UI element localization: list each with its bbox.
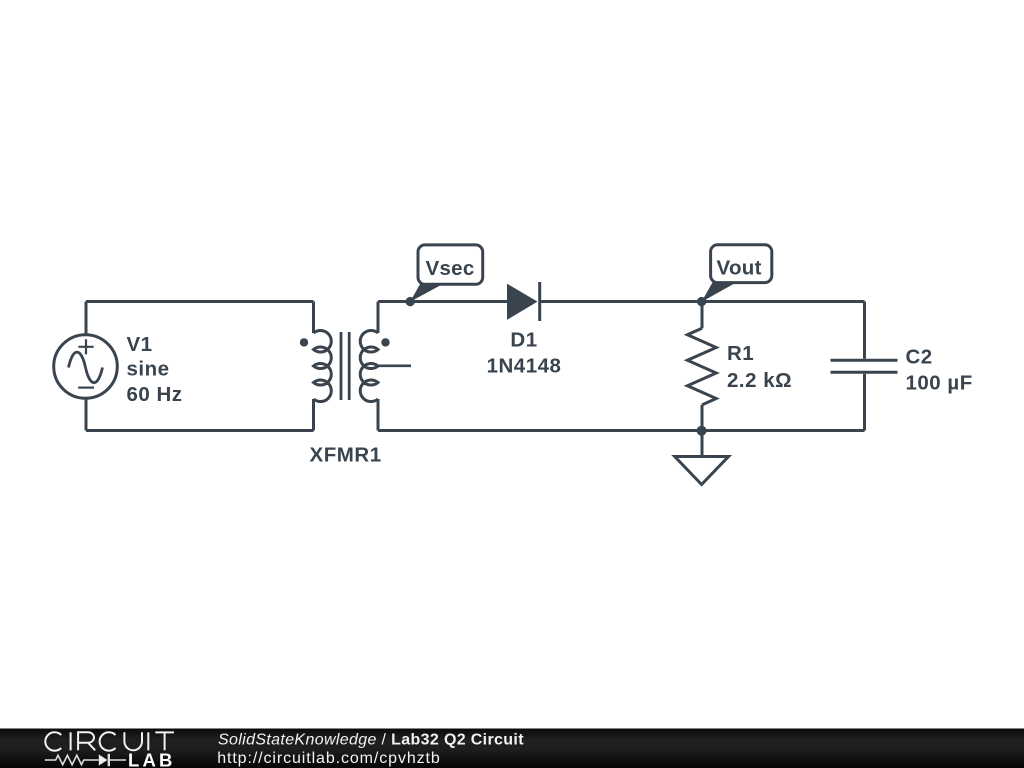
svg-text:C2: C2 [906,346,933,369]
wire: V1 bottom lead [85,399,88,431]
svg-text:100 µF: 100 µF [906,372,973,395]
capacitor C2 [831,360,898,372]
wire: top-left rail [86,300,314,303]
node flag Vsec [410,245,483,302]
wire: secondary top stub [377,302,380,334]
voltage source V1 [54,335,118,399]
primary phase dot [300,338,308,346]
wire: C2 top lead [863,302,866,359]
secondary phase dot [381,338,389,346]
svg-text:2.2 kΩ: 2.2 kΩ [727,369,792,392]
svg-text:LAB: LAB [128,749,176,768]
svg-text:SolidStateKnowledge / Lab32 Q2: SolidStateKnowledge / Lab32 Q2 Circuit [218,731,524,748]
wire: R1 bottom lead [701,405,704,431]
node flag Vout [702,245,772,302]
wire: diode to Vout junction [540,300,702,303]
transformer XFMR1 [314,330,379,401]
wire: V1 top lead [85,302,88,336]
plus sign of V1 [78,339,93,354]
label V1 sine 60 Hz [127,333,183,406]
svg-text:R1: R1 [727,342,754,365]
svg-text:http://circuitlab.com/cpvhztb: http://circuitlab.com/cpvhztb [217,750,441,767]
wire: bottom-left rail [86,429,314,432]
junction dot Vsec node [406,297,415,306]
svg-text:XFMR1: XFMR1 [310,444,382,467]
wire: transformer center tap [378,364,411,367]
junction dot ground node [697,426,707,436]
schematic ink color [86,302,865,457]
wire: ground stub [701,431,704,457]
svg-text:1N4148: 1N4148 [487,354,562,377]
wire: R1 top lead [701,302,704,329]
svg-text:V1: V1 [127,333,153,356]
diode D1 [507,282,540,321]
wire: top rail secondary to diode [378,300,507,303]
label D1 1N4148 [487,329,562,378]
svg-text:D1: D1 [510,329,537,352]
core lines [341,332,349,400]
svg-text:Vout: Vout [717,257,762,280]
cathode bar [538,282,541,321]
wire: primary bottom stub [312,399,315,431]
ground [675,457,729,485]
label C2 100 uF [906,346,973,395]
junction dot Vout node [697,297,706,306]
wire: secondary bottom stub [377,399,380,431]
sine wave inside V1 [69,352,103,383]
label R1 2.2 kOhm [727,342,792,392]
minus sign of V1 [78,387,94,389]
CircuitLab logo wordmark CIRCUIT [45,732,174,750]
secondary winding [360,330,378,401]
wire: bottom-right rail [378,429,865,432]
wire: primary top stub [312,302,315,334]
CircuitLab logo resistor-diode doodle [45,754,126,766]
svg-text:Vsec: Vsec [426,257,475,280]
primary winding [314,330,332,401]
svg-text:sine: sine [127,358,170,381]
wire: Vout junction to C2 branch [702,300,865,303]
wire: C2 bottom lead [863,374,866,431]
resistor R1 [687,328,716,405]
svg-text:60 Hz: 60 Hz [127,383,183,406]
